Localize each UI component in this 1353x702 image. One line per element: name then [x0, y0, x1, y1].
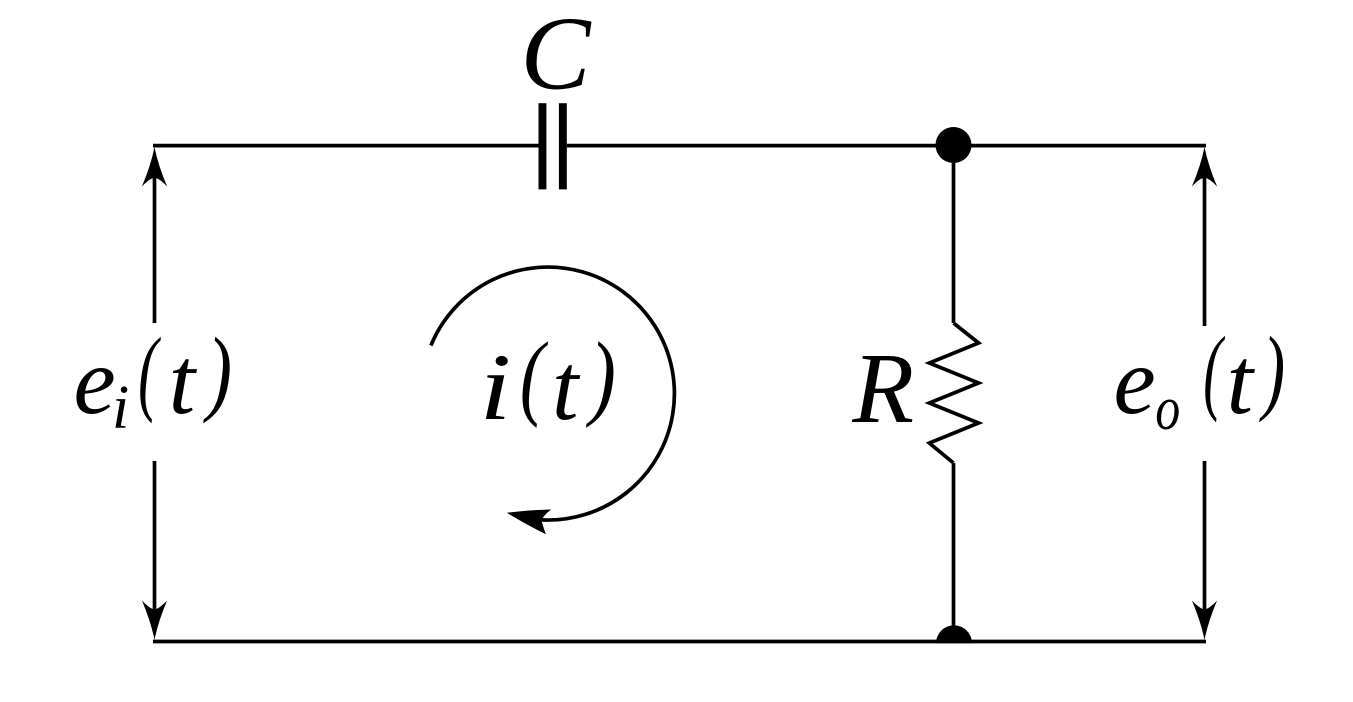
svg-text:t: t — [552, 334, 581, 440]
svg-text:i: i — [112, 374, 129, 442]
wire top-left segment — [153, 144, 539, 148]
svg-text:t: t — [1227, 328, 1256, 434]
svg-text:R: R — [851, 332, 914, 444]
node A (top junction dot) — [936, 127, 972, 163]
node B (bottom junction half-dot) — [936, 625, 972, 643]
svg-text:): ) — [202, 318, 232, 424]
svg-text:o: o — [1155, 375, 1180, 443]
arrowhead e_o down — [1192, 601, 1217, 641]
svg-text:(: ( — [138, 319, 161, 425]
wire bottom — [153, 640, 1206, 644]
arrowhead e_o up — [1192, 147, 1217, 187]
svg-text:): ) — [1259, 317, 1285, 423]
wire e_o arrow lower shaft — [1203, 461, 1207, 626]
arrowhead e_i down — [142, 601, 167, 641]
label e_i(t) — [74, 318, 233, 442]
capacitor C1 left plate — [539, 103, 547, 189]
label i(t) — [480, 323, 616, 440]
arrowhead loop current — [507, 510, 551, 535]
capacitor C1 right plate — [559, 103, 567, 189]
wire e_i arrow upper shaft — [153, 160, 157, 323]
arrowhead e_i up — [142, 147, 167, 187]
svg-text:): ) — [585, 323, 616, 429]
loop current arc i(t) — [431, 267, 675, 520]
svg-text:C: C — [521, 0, 593, 111]
label R — [851, 332, 914, 444]
wire resistor bottom lead — [952, 463, 956, 642]
wire e_o arrow upper shaft — [1203, 160, 1207, 326]
wire top-right segment — [567, 144, 1206, 148]
wire resistor top lead — [952, 146, 956, 323]
svg-text:(: ( — [1203, 317, 1226, 423]
svg-text:e: e — [1114, 328, 1156, 434]
svg-text:i: i — [480, 334, 512, 440]
resistor R — [929, 323, 978, 463]
svg-text:(: ( — [520, 324, 549, 429]
label e_o(t) — [1114, 317, 1286, 443]
wire e_i arrow lower shaft — [153, 461, 157, 626]
svg-text:e: e — [74, 328, 116, 434]
svg-text:t: t — [169, 328, 198, 434]
label C — [521, 0, 593, 111]
